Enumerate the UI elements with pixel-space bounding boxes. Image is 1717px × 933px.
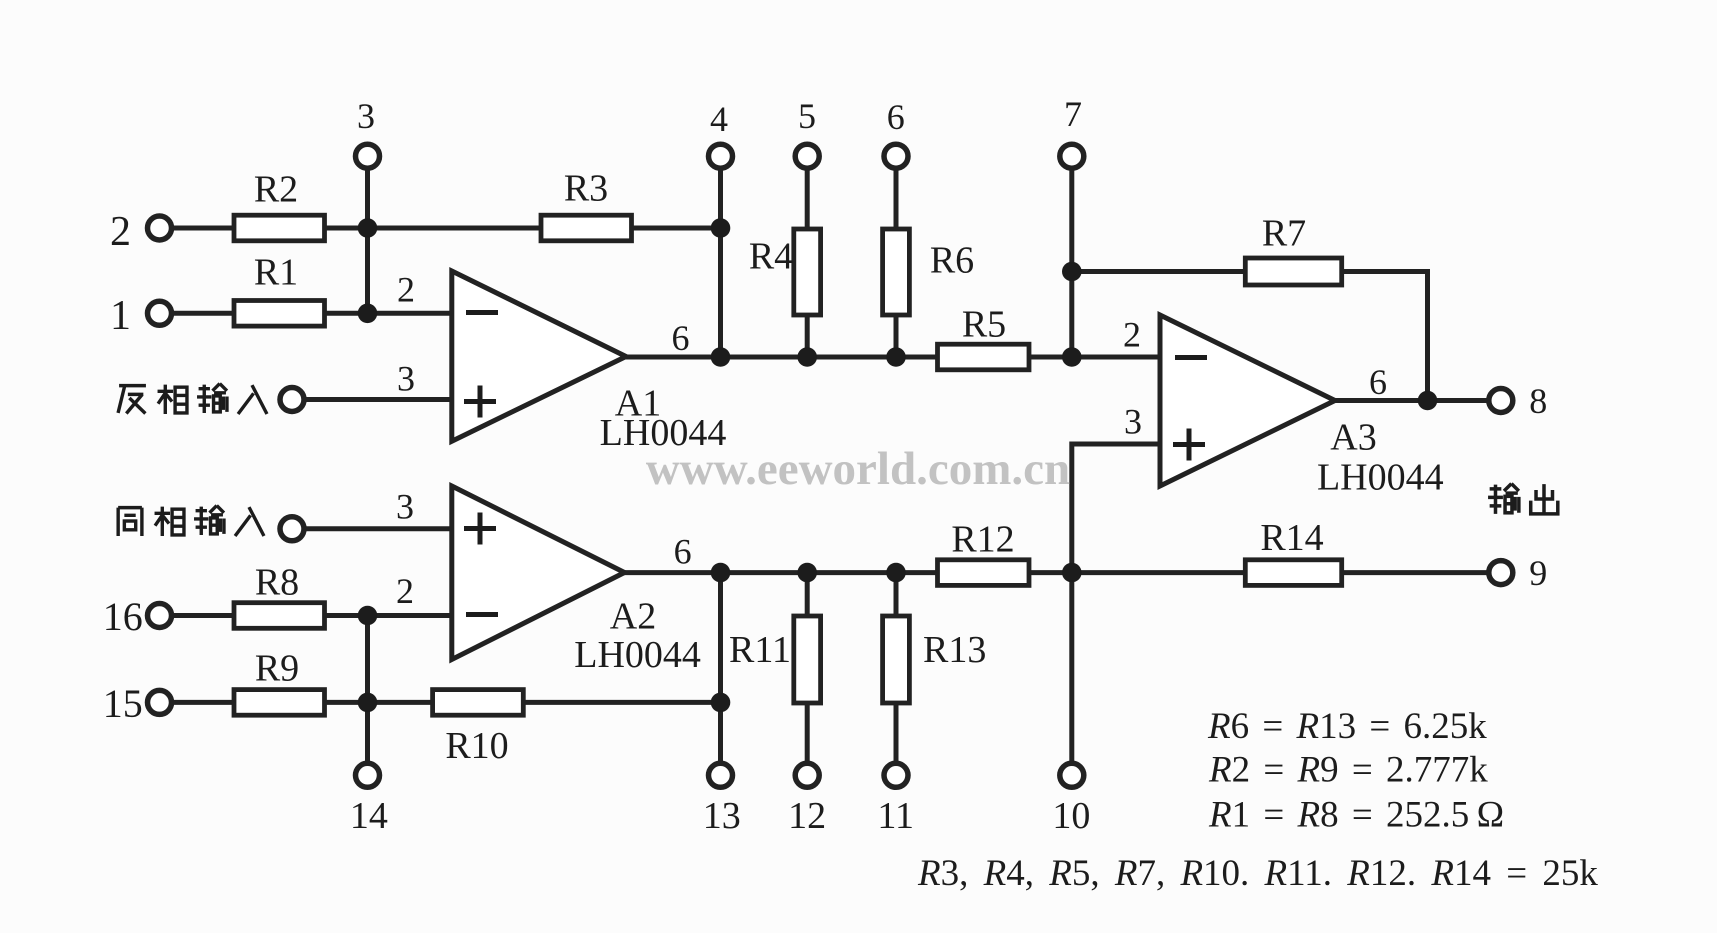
svg-text:15: 15 bbox=[103, 681, 143, 726]
svg-text:A3: A3 bbox=[1330, 417, 1376, 459]
wire inverting-input terminal to A1 + input bbox=[303, 397, 452, 402]
terminal pin 16 bbox=[148, 604, 172, 628]
junction node A1-out col C bbox=[797, 347, 817, 367]
wire noninverting-input terminal to A2 + input bbox=[303, 526, 452, 531]
label 反相输入 (inverting input) bbox=[118, 384, 267, 414]
svg-text:6: 6 bbox=[1369, 362, 1387, 402]
svg-text:7: 7 bbox=[1064, 94, 1082, 134]
svg-text:R14: R14 bbox=[1260, 517, 1323, 559]
svg-text:R2: R2 bbox=[254, 169, 298, 211]
wire node E to R7 bbox=[1072, 269, 1246, 274]
svg-text:3: 3 bbox=[396, 487, 414, 527]
terminal pin 12 bbox=[795, 763, 819, 787]
wire R1 to A1 inverting input bbox=[325, 311, 452, 316]
terminal pin 5 bbox=[795, 144, 819, 168]
wire A3 output to terminal8 bbox=[1335, 398, 1490, 403]
svg-text:R6 = R13 = 6.25k: R6 = R13 = 6.25k bbox=[1207, 706, 1487, 747]
wire R3 to column B bbox=[632, 226, 721, 231]
wire column D to R13 bbox=[894, 573, 899, 616]
wire terminal4 vertical bbox=[718, 167, 723, 357]
svg-text:LH0044: LH0044 bbox=[574, 634, 701, 676]
svg-text:4: 4 bbox=[710, 99, 728, 139]
junction node top-rail col B bbox=[711, 218, 731, 238]
svg-text:R13: R13 bbox=[923, 629, 986, 671]
svg-text:R9: R9 bbox=[255, 648, 299, 690]
svg-text:2: 2 bbox=[1123, 315, 1141, 355]
svg-text:R4: R4 bbox=[749, 236, 793, 278]
op-amp A2 minus sign bbox=[466, 612, 498, 617]
wire terminal7 vertical bbox=[1069, 167, 1074, 357]
wire terminal1 to R1 bbox=[170, 311, 234, 316]
resistor R13 bbox=[883, 616, 910, 703]
junction node A2-out col C bbox=[797, 563, 817, 583]
wire A1 output to R5 bbox=[626, 355, 938, 360]
svg-text:11: 11 bbox=[877, 795, 914, 837]
svg-text:10: 10 bbox=[1052, 795, 1090, 837]
op-amp A1 bbox=[452, 271, 626, 441]
wire column E lower vertical to terminal10 bbox=[1069, 573, 1074, 765]
resistor R5 bbox=[938, 344, 1030, 370]
junction node top-rail col A bbox=[358, 218, 378, 238]
wire R14 to terminal9 bbox=[1342, 570, 1490, 575]
svg-text:R3, R4, R5, R7, R10. R11. R12.: R3, R4, R5, R7, R10. R11. R12. R14 = 25k bbox=[917, 853, 1598, 894]
svg-text:3: 3 bbox=[397, 359, 415, 399]
wire terminal15 to R9 bbox=[170, 700, 234, 705]
svg-text:2: 2 bbox=[396, 571, 414, 611]
wire terminal3 vertical down to R1 node bbox=[365, 167, 370, 313]
terminal pin 15 bbox=[148, 690, 172, 714]
wire column B lower vertical to terminal13 bbox=[718, 573, 723, 765]
wire R5 to A3 inverting input bbox=[1029, 355, 1160, 360]
terminal pin 10 bbox=[1060, 763, 1084, 787]
resistor R8 bbox=[234, 603, 325, 629]
resistor R7 bbox=[1245, 258, 1341, 285]
wire R7 to feedback corner bbox=[1342, 272, 1428, 401]
label 输出 (output) bbox=[1488, 484, 1558, 514]
resistor R1 bbox=[234, 301, 325, 327]
resistor R12 bbox=[938, 560, 1030, 586]
wire R12 to R14 bbox=[1029, 570, 1245, 575]
svg-text:6: 6 bbox=[887, 97, 905, 137]
junction node A1-out col D bbox=[886, 347, 906, 367]
svg-text:14: 14 bbox=[350, 795, 388, 837]
svg-text:12: 12 bbox=[788, 795, 826, 837]
svg-text:2: 2 bbox=[397, 270, 415, 310]
svg-text:5: 5 bbox=[798, 96, 816, 136]
wire R9 to R10 bbox=[325, 700, 433, 705]
op-amp A2 plus sign bbox=[464, 513, 496, 545]
op-amp A3 minus sign bbox=[1175, 355, 1207, 360]
svg-text:A2: A2 bbox=[610, 596, 656, 638]
svg-text:8: 8 bbox=[1529, 381, 1547, 421]
svg-text:R12: R12 bbox=[951, 519, 1014, 561]
wire A3 non-inverting input branch bbox=[1072, 444, 1160, 573]
svg-text:13: 13 bbox=[703, 795, 741, 837]
terminal inverting input bbox=[280, 388, 304, 412]
terminal pin 6 bbox=[884, 144, 908, 168]
svg-text:R1: R1 bbox=[254, 252, 298, 294]
svg-text:LH0044: LH0044 bbox=[600, 412, 727, 454]
svg-text:3: 3 bbox=[357, 96, 375, 136]
svg-text:R6: R6 bbox=[930, 240, 974, 282]
label 同相输入 (noninverting input) bbox=[118, 506, 264, 536]
wire R2 to R3 (top rail through node) bbox=[325, 226, 542, 231]
op-amp A1 plus sign bbox=[464, 386, 496, 418]
wire terminal2 to R2 bbox=[170, 226, 234, 231]
resistor R9 bbox=[234, 690, 325, 716]
svg-text:16: 16 bbox=[103, 594, 143, 639]
svg-text:R5: R5 bbox=[962, 304, 1006, 346]
wire R4 to output line bbox=[805, 315, 810, 357]
wire R11 to terminal12 bbox=[805, 703, 810, 765]
svg-text:R1 = R8 = 252.5 Ω: R1 = R8 = 252.5 Ω bbox=[1208, 795, 1504, 836]
svg-text:R3: R3 bbox=[564, 168, 608, 210]
terminal noninverting input bbox=[280, 517, 304, 541]
op-amp A2 bbox=[452, 486, 625, 660]
junction node A1-out col B bbox=[711, 347, 731, 367]
junction node A3 output feedback bbox=[1418, 391, 1438, 411]
resistor R11 bbox=[794, 616, 821, 703]
wire R13 to terminal11 bbox=[894, 703, 899, 765]
terminal pin 7 bbox=[1060, 144, 1084, 168]
svg-text:2: 2 bbox=[110, 209, 131, 255]
resistor R14 bbox=[1245, 560, 1341, 586]
wire terminal5 to R4 bbox=[805, 167, 810, 230]
resistor R4 bbox=[794, 229, 821, 315]
svg-text:R7: R7 bbox=[1262, 213, 1306, 255]
junction node R9-R10 col A bbox=[358, 693, 378, 713]
resistor R2 bbox=[234, 215, 325, 241]
wire R10 to column B bbox=[523, 700, 720, 705]
junction node R8 col A bbox=[358, 606, 378, 626]
junction node A2-out col D bbox=[886, 563, 906, 583]
wire A2 output to R12 bbox=[626, 570, 938, 575]
terminal pin 1 bbox=[148, 301, 172, 325]
junction node A3 inverting input bbox=[1062, 347, 1082, 367]
wire R6 to output line bbox=[894, 315, 899, 357]
svg-text:R2 = R9 = 2.777k: R2 = R9 = 2.777k bbox=[1208, 750, 1488, 791]
wire column C to R11 bbox=[805, 573, 810, 616]
junction node A2-out col B bbox=[711, 563, 731, 583]
svg-text:9: 9 bbox=[1529, 553, 1547, 593]
wire terminal16 to R8 bbox=[170, 613, 234, 618]
wire R8 to A2 inverting input bbox=[325, 613, 452, 618]
terminal pin 4 bbox=[709, 144, 733, 168]
wire column A lower vertical to terminal14 bbox=[365, 616, 370, 765]
resistor R6 bbox=[883, 229, 910, 315]
terminal pin 8 bbox=[1489, 389, 1513, 413]
terminal pin 14 bbox=[356, 763, 380, 787]
svg-text:6: 6 bbox=[672, 318, 690, 358]
svg-text:R10: R10 bbox=[445, 725, 508, 767]
terminal pin 2 bbox=[148, 216, 172, 240]
terminal pin 3 bbox=[356, 144, 380, 168]
junction node A3 noninverting col E bbox=[1062, 563, 1082, 583]
junction node R7 tee bbox=[1062, 262, 1082, 282]
terminal pin 11 bbox=[884, 763, 908, 787]
svg-text:R8: R8 bbox=[255, 562, 299, 604]
op-amp A3 plus sign bbox=[1173, 429, 1205, 461]
svg-text:6: 6 bbox=[674, 532, 692, 572]
terminal pin 9 bbox=[1489, 561, 1513, 585]
junction node R1 line col A bbox=[358, 304, 378, 324]
op-amp A3 bbox=[1160, 315, 1335, 486]
svg-text:1: 1 bbox=[110, 293, 131, 339]
svg-text:R11: R11 bbox=[729, 629, 791, 671]
resistor R3 bbox=[541, 215, 632, 241]
resistor R10 bbox=[433, 690, 524, 716]
terminal pin 13 bbox=[709, 763, 733, 787]
op-amp A1 minus sign bbox=[466, 310, 498, 315]
svg-text:3: 3 bbox=[1124, 402, 1142, 442]
junction node R10 col B bbox=[711, 693, 731, 713]
svg-text:LH0044: LH0044 bbox=[1317, 457, 1444, 499]
wire terminal6 to R6 bbox=[894, 167, 899, 230]
